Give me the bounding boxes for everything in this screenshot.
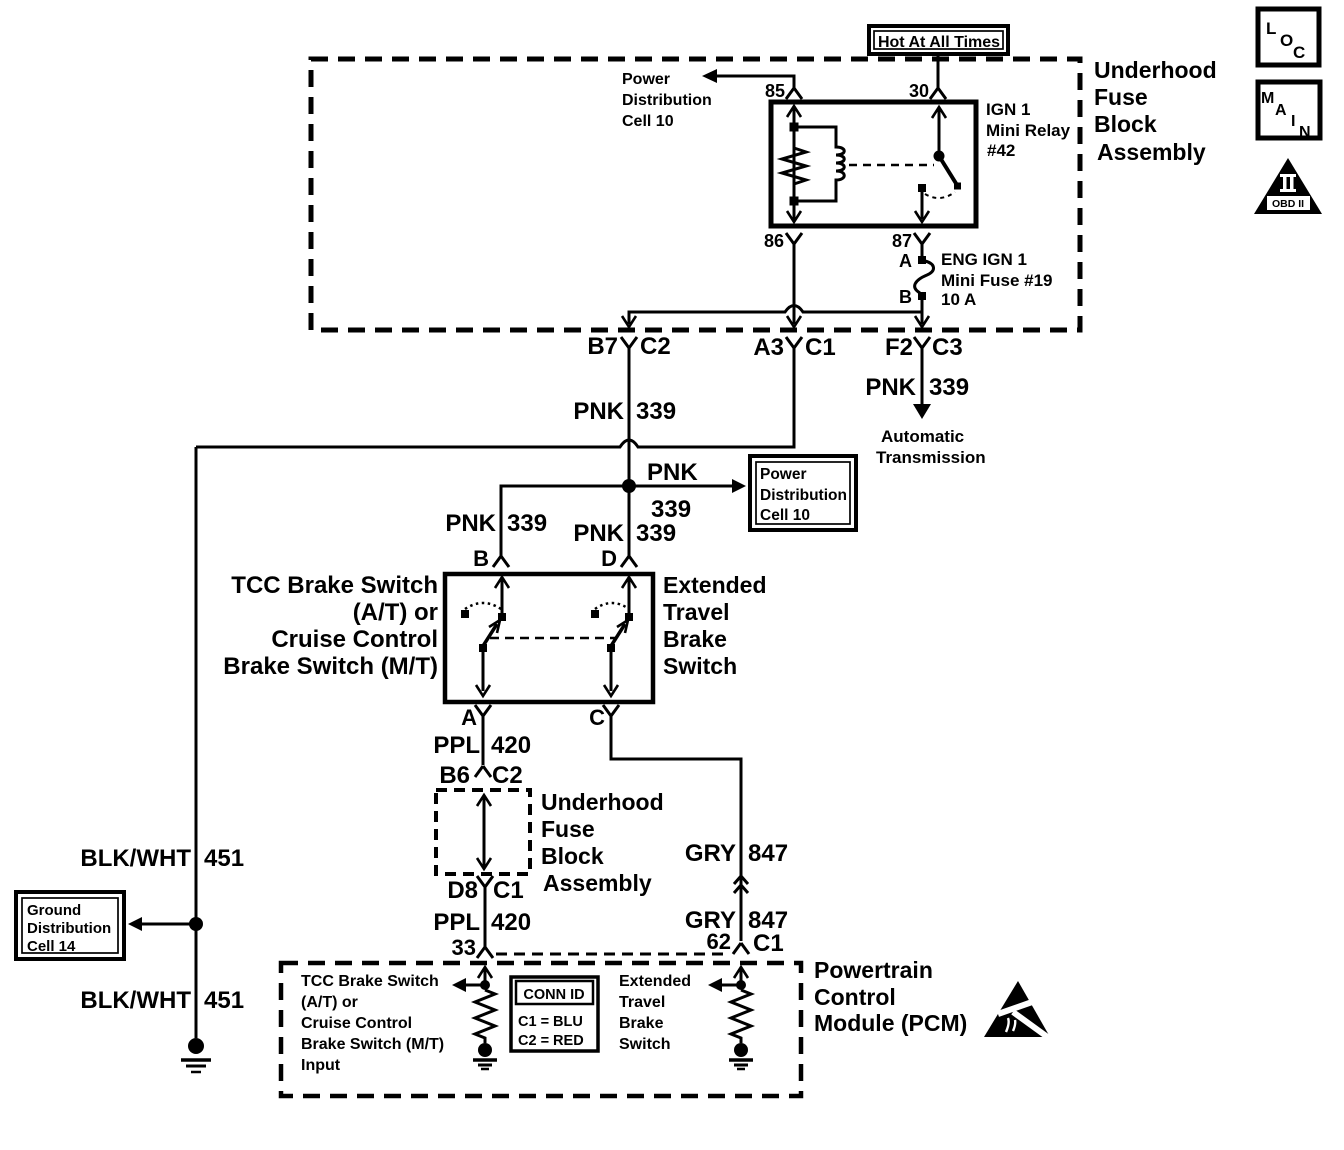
svg-text:Mini Fuse #19: Mini Fuse #19 <box>941 271 1052 290</box>
svg-text:L: L <box>1266 19 1276 38</box>
svg-text:A3: A3 <box>753 334 784 361</box>
wire: fuse output down to F2/C3 <box>921 300 924 324</box>
PCM pull-up resistor (pin 33) <box>475 990 495 1043</box>
svg-text:339: 339 <box>636 520 676 547</box>
wire: relay pin 85 to Power Distribution Cell 10 with arrow <box>715 76 794 85</box>
svg-text:M: M <box>1261 90 1274 107</box>
connector F2/C3 <box>914 337 930 356</box>
box: Hot At All Times <box>869 26 1008 54</box>
svg-text:Block: Block <box>541 843 604 869</box>
svg-text:Cruise Control: Cruise Control <box>271 626 438 653</box>
svg-text:(A/T) or: (A/T) or <box>353 599 438 626</box>
extended travel switch travel dotted arc <box>595 603 629 609</box>
svg-text:CONN ID: CONN ID <box>523 987 584 1003</box>
wire: pin 87 to fuse <box>921 243 924 257</box>
svg-text:420: 420 <box>491 909 531 936</box>
pin 86 connector <box>786 233 802 250</box>
TCC switch travel dotted arc <box>465 603 501 609</box>
svg-text:Cruise Control: Cruise Control <box>301 1015 412 1032</box>
icon: OBD II <box>1254 158 1322 214</box>
svg-text:GRY: GRY <box>685 840 736 867</box>
extended travel switch contact wire (pin D side) <box>628 578 631 613</box>
svg-text:Distribution: Distribution <box>622 92 712 109</box>
svg-text:#42: #42 <box>987 141 1015 160</box>
svg-text:C: C <box>589 705 605 730</box>
svg-text:Switch: Switch <box>663 653 737 679</box>
svg-text:Control: Control <box>814 984 896 1010</box>
label: Extended Travel Brake Switch (PCM) <box>619 973 691 1053</box>
wire: battery feed to relay pin 30 <box>937 54 940 85</box>
box: Ground Distribution Cell 14 <box>16 892 124 959</box>
wire: pin 86 down to A3/C1 <box>793 243 796 324</box>
node: PNK 339 splice <box>622 479 636 493</box>
svg-text:Automatic: Automatic <box>881 427 964 446</box>
relay U: IGN 1 Mini Relay #42 box <box>771 102 976 226</box>
icon: ESD sensitive device warning <box>984 981 1053 1041</box>
label: Power Distribution Cell 10 (top-left reference) <box>622 71 712 130</box>
PCM pin 62 input wire <box>740 968 743 985</box>
svg-text:451: 451 <box>204 987 244 1014</box>
svg-text:C: C <box>1293 43 1305 62</box>
svg-text:10 A: 10 A <box>941 290 976 309</box>
wire: ground rail to Ground Distribution Cell 14 with arrow <box>140 923 196 926</box>
svg-text:I: I <box>1291 113 1295 130</box>
relay coil branch wire with arrows <box>793 107 796 220</box>
wire: D8/C1 to PCM pin 33 (PPL 420) <box>484 886 487 947</box>
relay actuation dashed link <box>849 164 934 167</box>
relay switch common wire (pin 30) <box>938 107 941 152</box>
svg-text:Block: Block <box>1094 111 1157 137</box>
svg-text:62: 62 <box>707 929 731 954</box>
svg-text:B6: B6 <box>439 762 470 789</box>
svg-text:D: D <box>601 546 617 571</box>
svg-text:Assembly: Assembly <box>1097 139 1206 165</box>
svg-text:Underhood: Underhood <box>1094 57 1217 83</box>
relay switch pivot <box>934 151 945 162</box>
svg-text:A: A <box>899 251 912 271</box>
PCM internal ground (pin 62) <box>734 1043 748 1057</box>
svg-text:OBD II: OBD II <box>1272 198 1304 210</box>
svg-text:Distribution: Distribution <box>760 487 847 504</box>
PCM pin 33 signal arrow <box>461 984 485 987</box>
pin 87 connector <box>914 233 930 250</box>
svg-text:Brake: Brake <box>663 626 727 652</box>
svg-text:PNK: PNK <box>573 520 624 547</box>
PCM pull-up resistor (pin 62) <box>731 990 751 1043</box>
svg-text:Travel: Travel <box>619 994 665 1011</box>
connector C1 dashed outline between pins 33 and 62 <box>496 953 730 956</box>
TCC switch fixed contact <box>498 613 506 621</box>
svg-text:B: B <box>473 546 489 571</box>
powertrain control module dashed box <box>281 963 801 1096</box>
box: CONN ID C1=BLU C2=RED <box>511 977 598 1051</box>
ground G symbol <box>181 1038 211 1072</box>
svg-text:PNK: PNK <box>445 510 496 537</box>
PCM pin 33 input wire <box>484 968 487 985</box>
wire: splice to switch pin D (PNK 339) <box>628 486 631 557</box>
relay switch blade <box>939 156 957 185</box>
pin 30 connector <box>930 85 946 99</box>
svg-text:Brake Switch (M/T): Brake Switch (M/T) <box>301 1036 444 1053</box>
label: Underhood Fuse Block Assembly (middle) <box>541 789 664 896</box>
svg-text:Input: Input <box>301 1057 341 1074</box>
label: TCC Brake Switch (A/T) or Cruise Control Brake Switch (M/T) <box>223 572 438 680</box>
relay coil <box>798 127 844 201</box>
wire inside fuse block <box>483 796 486 868</box>
svg-text:PPL: PPL <box>433 732 480 759</box>
relay resistor <box>782 148 806 184</box>
svg-text:Extended: Extended <box>619 973 691 990</box>
svg-text:Travel: Travel <box>663 599 730 625</box>
svg-text:339: 339 <box>636 398 676 425</box>
svg-text:TCC Brake Switch: TCC Brake Switch <box>301 973 439 990</box>
svg-text:ENG IGN 1: ENG IGN 1 <box>941 250 1027 269</box>
underhood fuse block assembly dashed box <box>311 59 1080 330</box>
pin 62 connector <box>733 943 749 954</box>
svg-text:Cell 10: Cell 10 <box>622 113 674 130</box>
icon: LOC <box>1258 9 1319 65</box>
svg-text:Cell 10: Cell 10 <box>760 507 810 524</box>
fuse F: ENG IGN 1 Mini Fuse #19 10 A <box>899 251 934 307</box>
svg-text:B7: B7 <box>587 333 618 360</box>
svg-text:BLK/WHT: BLK/WHT <box>80 845 191 872</box>
pin 33 connector <box>477 947 493 958</box>
svg-text:Underhood: Underhood <box>541 789 664 815</box>
svg-text:85: 85 <box>765 81 785 101</box>
PCM pin 62 input node <box>736 980 746 990</box>
svg-text:Power: Power <box>622 71 670 88</box>
svg-text:Powertrain: Powertrain <box>814 957 933 983</box>
svg-text:O: O <box>1280 31 1293 50</box>
pin A connector <box>475 705 491 716</box>
pin 85 connector <box>786 85 802 99</box>
relay switch travel dashed arc <box>925 192 955 198</box>
svg-text:PNK: PNK <box>865 374 916 401</box>
svg-text:C1 = BLU: C1 = BLU <box>518 1014 583 1030</box>
extended travel switch open contact <box>591 610 599 618</box>
svg-text:Extended: Extended <box>663 572 767 598</box>
wire: pin A down (PPL 420) <box>482 715 485 765</box>
extended travel switch blade with arrow <box>611 624 625 646</box>
label: ENG IGN 1 Mini Fuse #19 10 A <box>941 250 1052 309</box>
svg-text:Distribution: Distribution <box>27 920 111 937</box>
svg-text:PNK: PNK <box>573 398 624 425</box>
svg-text:C2: C2 <box>492 762 523 789</box>
TCC switch blade with arrow <box>483 624 497 646</box>
node: ground rail junction <box>189 917 203 931</box>
relay contact node (bottom) <box>790 197 799 206</box>
svg-text:Module (PCM): Module (PCM) <box>814 1010 967 1036</box>
extended travel switch fixed contact <box>625 613 633 621</box>
mechanical dashed link between switches <box>490 637 617 640</box>
wire: PNK 339 from B7/C2 to junction <box>628 348 631 480</box>
svg-text:IGN 1: IGN 1 <box>986 100 1030 119</box>
svg-text:86: 86 <box>764 231 784 251</box>
svg-text:C2: C2 <box>640 333 671 360</box>
icon: MAIN <box>1258 82 1320 141</box>
connector D8/C1 <box>477 876 493 887</box>
label: Underhood Fuse Block Assembly <box>1094 57 1217 165</box>
svg-text:Cell 14: Cell 14 <box>27 938 76 955</box>
inline connector chevrons on GRY wire <box>734 876 748 893</box>
connector B6/C2 <box>475 766 491 777</box>
svg-text:87: 87 <box>892 231 912 251</box>
wire: ground path from A3/C1 to left rail (hops over PNK wire) <box>196 348 794 447</box>
wire: PNK 339 to Automatic Transmission <box>921 348 924 404</box>
underhood fuse block assembly small dashed box <box>436 790 530 874</box>
svg-text:Power: Power <box>760 466 807 483</box>
extended travel switch output wire (pin C side) <box>610 652 613 691</box>
relay output wire (pin 87) <box>921 192 924 219</box>
PCM pin 62 signal arrow <box>717 984 741 987</box>
relay switch contact <box>918 184 926 192</box>
label: Extended Travel Brake Switch <box>663 572 767 679</box>
TCC switch contact wire (pin B side) <box>501 578 504 613</box>
svg-text:A: A <box>461 705 477 730</box>
svg-text:Transmission: Transmission <box>876 448 986 467</box>
svg-text:BLK/WHT: BLK/WHT <box>80 987 191 1014</box>
svg-text:D8: D8 <box>447 877 478 904</box>
TCC switch open contact <box>461 610 469 618</box>
svg-text:C1: C1 <box>805 334 836 361</box>
box: Power Distribution Cell 10 <box>750 456 856 530</box>
pin C connector <box>603 705 619 716</box>
wire: splice to Power Distribution Cell 10 with arrow <box>629 485 733 488</box>
label: TCC Brake Switch (A/T) or Cruise Control Brake Switch (M/T) Input <box>301 973 444 1074</box>
svg-text:N: N <box>1299 124 1311 141</box>
svg-text:A: A <box>1275 102 1287 119</box>
TCC switch output wire (pin A side) <box>482 652 485 691</box>
svg-text:C3: C3 <box>932 334 963 361</box>
svg-text:PPL: PPL <box>433 909 480 936</box>
PCM pin 33 input node <box>480 980 490 990</box>
svg-text:Fuse: Fuse <box>1094 84 1148 110</box>
relay contact node (top) <box>790 123 799 132</box>
PCM internal ground (pin 33) <box>478 1043 492 1057</box>
pin B connector <box>493 556 509 567</box>
wire: fuse output bus to B7/C2 (hops over pin-86 wire) <box>629 306 922 325</box>
svg-text:C2 = RED: C2 = RED <box>518 1033 584 1049</box>
svg-text:Assembly: Assembly <box>543 870 652 896</box>
svg-text:PNK: PNK <box>647 459 698 486</box>
svg-text:F2: F2 <box>885 334 913 361</box>
svg-text:Switch: Switch <box>619 1036 671 1053</box>
svg-text:847: 847 <box>748 840 788 867</box>
svg-text:Brake: Brake <box>619 1015 664 1032</box>
svg-text:Ground: Ground <box>27 902 81 919</box>
svg-text:339: 339 <box>651 496 691 523</box>
svg-text:C1: C1 <box>753 930 784 957</box>
svg-text:451: 451 <box>204 845 244 872</box>
connector A3/C1 <box>786 337 802 356</box>
label: IGN 1 Mini Relay #42 <box>986 100 1071 160</box>
connector B7/C2 <box>621 337 637 356</box>
svg-text:Brake Switch (M/T): Brake Switch (M/T) <box>223 653 438 680</box>
label: Powertrain Control Module (PCM) <box>814 957 967 1036</box>
svg-text:420: 420 <box>491 732 531 759</box>
extended travel switch common node <box>607 644 615 652</box>
svg-text:B: B <box>899 287 912 307</box>
pin D connector <box>621 556 637 567</box>
svg-text:(A/T) or: (A/T) or <box>301 994 358 1011</box>
wire: BLK/WHT 451 ground rail <box>195 447 198 1038</box>
svg-text:Fuse: Fuse <box>541 816 595 842</box>
svg-text:C1: C1 <box>493 877 524 904</box>
brake switch box <box>445 574 653 702</box>
wire: pin C to GRY 847 drop <box>611 715 741 941</box>
svg-text:Hot At All Times: Hot At All Times <box>878 34 1000 51</box>
svg-text:33: 33 <box>452 935 476 960</box>
svg-text:30: 30 <box>909 81 929 101</box>
svg-text:TCC Brake Switch: TCC Brake Switch <box>231 572 438 599</box>
TCC switch common node <box>479 644 487 652</box>
wire: splice to switch pin B (PNK 339) <box>501 486 629 557</box>
svg-text:339: 339 <box>507 510 547 537</box>
svg-text:339: 339 <box>929 374 969 401</box>
svg-text:Mini Relay: Mini Relay <box>986 121 1071 140</box>
